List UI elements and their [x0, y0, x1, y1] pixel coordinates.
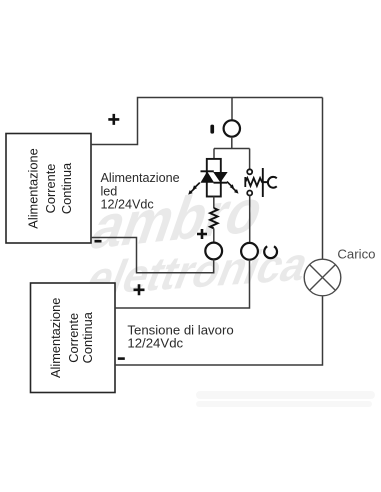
svg-text:Continua: Continua [80, 311, 95, 363]
wire PS2 + to terminal T3 [115, 260, 250, 308]
pushbutton S1: spring zigzag [245, 177, 262, 187]
svg-text:Alimentazione: Alimentazione [101, 171, 180, 185]
wire S1 to terminal T3 [249, 196, 251, 243]
pushbutton S1: top contact [247, 169, 252, 174]
svg-text:12/24Vdc: 12/24Vdc [101, 198, 154, 212]
LED block D1/D2 outline [207, 159, 221, 197]
terminal T2 (bottom left) [205, 243, 222, 260]
LED D1 (left, cathode bar top) [201, 171, 214, 182]
resistor R1 [210, 208, 218, 228]
label - (PS1 negative) [95, 240, 102, 243]
wire top rail to terminal [231, 98, 233, 121]
label - (minus bar at top terminal) [210, 125, 214, 134]
wire LED block to resistor [213, 197, 215, 209]
watermark ambro elettronica [75, 176, 375, 407]
wire T2 to PS1 negative [91, 238, 214, 273]
svg-text:Corrente: Corrente [43, 164, 58, 214]
wire to contact [249, 149, 251, 170]
svg-text:Corrente: Corrente [66, 313, 81, 363]
pushbutton S1: bottom contact [247, 191, 252, 196]
rotation mark at T3 [264, 246, 277, 258]
wire top rail to lamp [322, 98, 324, 260]
label + (T2 positive) [197, 229, 207, 239]
pushbutton S1: manual actuator C [263, 177, 277, 188]
svg-text:Alimentazione: Alimentazione [26, 148, 41, 228]
pushbutton S1: actuator bar [262, 168, 264, 197]
label + (PS2 positive) [134, 284, 145, 295]
svg-text:Carico: Carico [337, 247, 375, 262]
label - (PS2 negative) [118, 357, 125, 360]
LED light arrows left [188, 183, 200, 195]
LED D2 (right, cathode bar bottom) [214, 173, 228, 183]
wire to LED block [213, 149, 215, 160]
wire T1 to split node [231, 137, 233, 149]
terminal T1 (top) [224, 120, 240, 136]
label + (PS1 positive) [108, 114, 119, 125]
wire PS1 + to top rail [91, 98, 323, 145]
label Alimentazione led 12/24Vdc [101, 171, 180, 211]
wire PS2 - to lamp [115, 296, 323, 365]
wire split bar [214, 148, 250, 150]
svg-text:12/24Vdc: 12/24Vdc [127, 335, 183, 350]
power supply box PS1 (Alimentazione Corrente Continua, led supply) [6, 134, 91, 244]
power supply box PS2 (Alimentazione Corrente Continua, load supply) [31, 283, 116, 393]
svg-text:Continua: Continua [59, 162, 74, 214]
label Tensione di lavoro 12/24Vdc [127, 323, 233, 351]
wire resistor to terminal T2 [213, 228, 215, 242]
lamp L1 (Carico) [304, 259, 341, 296]
LED light arrows right [227, 182, 239, 194]
terminal T3 (bottom right) [241, 243, 258, 260]
svg-text:Alimentazione: Alimentazione [48, 298, 63, 378]
svg-text:led: led [101, 184, 118, 198]
